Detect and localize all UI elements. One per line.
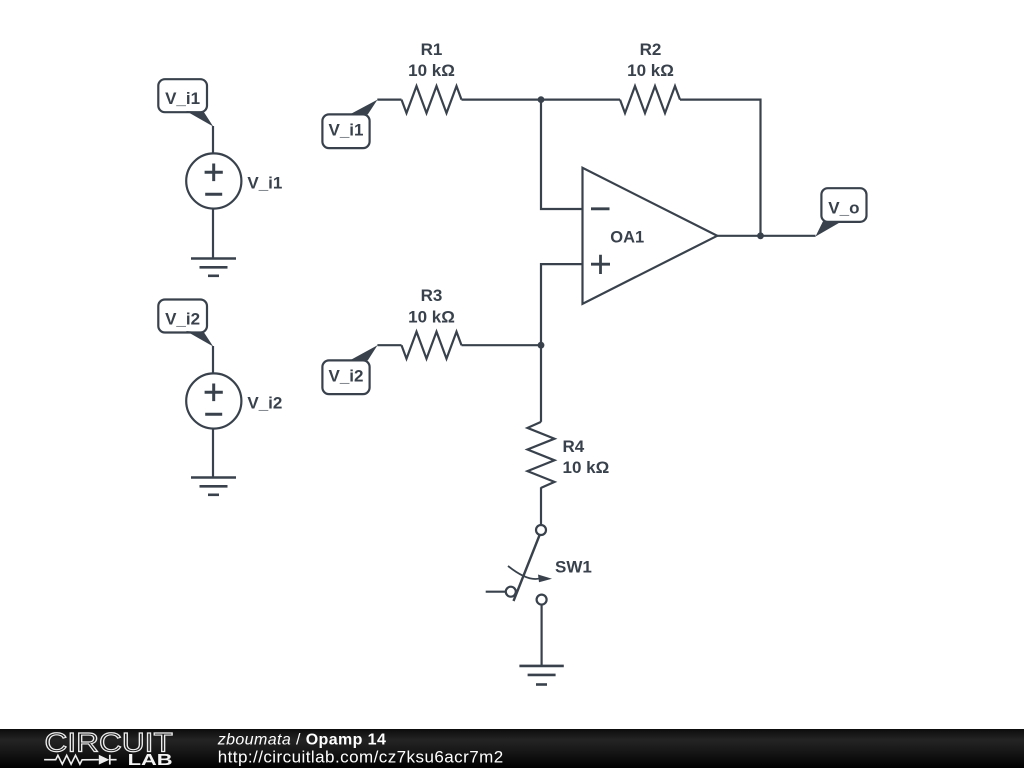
switch SW1	[486, 525, 592, 605]
wire R3 to node C	[462, 344, 542, 346]
voltage source V_i2	[186, 373, 282, 428]
svg-text:zboumata / Opamp 14: zboumata / Opamp 14	[217, 732, 387, 749]
svg-text:10 kΩ: 10 kΩ	[627, 61, 674, 80]
wire R2 to output node	[680, 100, 761, 236]
svg-text:V_i1: V_i1	[329, 121, 364, 140]
wire op-amp output to V_o flag	[717, 235, 815, 237]
wire flag to R1	[377, 98, 401, 100]
svg-text:OA1: OA1	[610, 229, 644, 247]
wire node A to inverting input	[541, 100, 582, 209]
svg-text:http://circuitlab.com/cz7ksu6a: http://circuitlab.com/cz7ksu6acr7m2	[218, 748, 504, 767]
svg-text:R1: R1	[421, 40, 443, 59]
footer bar	[0, 729, 1024, 768]
svg-text:10 kΩ: 10 kΩ	[408, 61, 455, 80]
wire flag to source V_i1	[212, 126, 214, 154]
node A (junction R1/R2/inverting input)	[538, 96, 545, 103]
svg-text:10 kΩ: 10 kΩ	[408, 308, 455, 327]
voltage source V_i1	[186, 153, 282, 208]
CircuitLab logo	[44, 727, 173, 768]
wire R4 to switch	[540, 487, 542, 525]
wire node C to non-inverting input and down to R4	[541, 264, 583, 422]
ground (V_i2)	[191, 478, 236, 495]
svg-text:SW1: SW1	[555, 558, 592, 577]
flag V_i2 (source label)	[158, 300, 213, 347]
resistor R1	[402, 40, 462, 113]
svg-text:10 kΩ: 10 kΩ	[563, 458, 610, 477]
net flag V_i2	[322, 345, 377, 394]
node C (junction R3/R4/non-inverting input)	[538, 342, 545, 349]
svg-text:V_i1: V_i1	[247, 174, 282, 193]
svg-text:R4: R4	[563, 437, 585, 456]
wire switch to ground	[540, 605, 542, 665]
wire node A to R2	[541, 98, 620, 100]
wire flag to source V_i2	[212, 346, 214, 374]
svg-text:V_i2: V_i2	[247, 394, 282, 413]
node B (output junction)	[757, 232, 764, 239]
svg-text:V_o: V_o	[828, 199, 859, 218]
footer title text	[217, 732, 387, 749]
svg-text:V_i2: V_i2	[329, 367, 364, 386]
svg-text:R2: R2	[640, 40, 662, 59]
svg-text:V_i1: V_i1	[165, 89, 200, 108]
wire source V_i1 to ground	[212, 208, 214, 258]
svg-text:V_i2: V_i2	[165, 309, 200, 328]
wire source V_i2 to ground	[212, 428, 214, 477]
op-amp OA1	[583, 168, 718, 304]
footer url text	[218, 748, 504, 767]
resistor R2	[620, 40, 680, 113]
net flag V_i1	[322, 100, 377, 149]
wire flag to R3	[377, 344, 401, 346]
svg-text:R3: R3	[421, 286, 443, 305]
resistor R3	[402, 286, 462, 359]
ground (V_i1)	[191, 259, 236, 276]
flag V_i1 (source label)	[158, 79, 213, 126]
resistor R4	[528, 422, 610, 488]
wire R1 to node A	[462, 98, 542, 100]
flag V_o	[816, 188, 867, 236]
svg-text:LAB: LAB	[128, 752, 173, 768]
ground (switch)	[519, 666, 563, 685]
